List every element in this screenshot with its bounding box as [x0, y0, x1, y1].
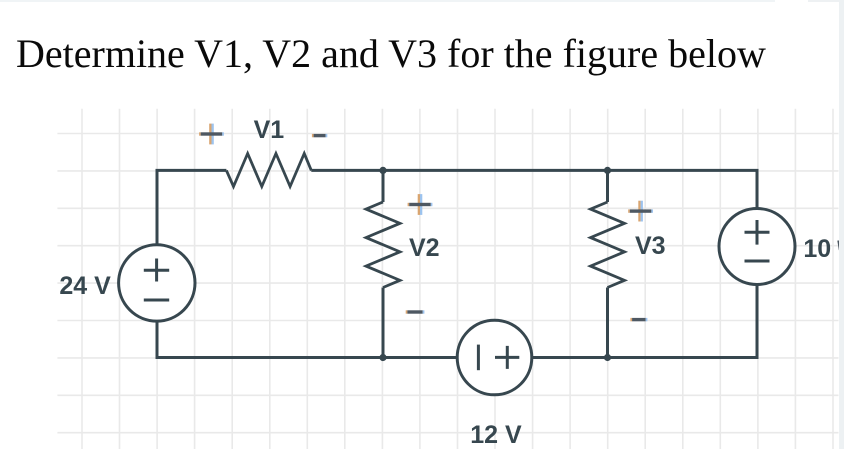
label 10 (V clipped): [803, 237, 831, 262]
plus inside 10V: [745, 220, 770, 245]
label V1: [254, 118, 285, 143]
voltage source 10V circle: [719, 209, 795, 285]
minus inside 10V: [745, 260, 770, 263]
wire: V3 branch bottom stub: [606, 288, 609, 358]
title: [16, 34, 766, 74]
polarity minus for V2: [406, 310, 425, 313]
minus bar inside 12V: [477, 345, 480, 371]
label 12 V: [470, 423, 521, 448]
plus inside 24V: [144, 259, 169, 282]
polarity minus for V1: [312, 134, 327, 137]
resistor R2 (V2): [366, 202, 400, 288]
polarity plus for V1: [199, 124, 224, 145]
wire: V3 branch top stub: [606, 170, 609, 202]
junction node bottom of V2: [379, 354, 386, 361]
resistor R3 (V3): [591, 202, 625, 288]
wire: V2 branch bottom stub: [382, 288, 385, 358]
voltage source 24V circle: [119, 245, 195, 321]
wire: bottom-left from 12V to corner and up to 24V source: [157, 321, 457, 357]
wire: top from R1 to top-right corner, down to 10V source: [311, 170, 757, 208]
plus inside 12V: [495, 346, 519, 369]
wire: top-left from 24V source up and right to R1: [157, 170, 226, 244]
voltage source 12V circle: [457, 320, 532, 395]
resistor R1 (V1): [226, 154, 311, 187]
sliver of clipped V of "10 V" label: [839, 241, 841, 251]
right window edge strip: [839, 0, 844, 449]
top window edge bar: [0, 0, 775, 2]
junction node top-left of V2: [379, 167, 386, 174]
label 24 V: [59, 274, 110, 299]
minus inside 24V: [144, 299, 169, 302]
label V2: [409, 236, 440, 261]
junction node bottom of V3: [604, 354, 611, 361]
label V3: [635, 234, 666, 259]
polarity minus for V3: [630, 318, 647, 321]
polarity plus for V3: [628, 201, 653, 222]
wire: V2 branch top stub: [382, 170, 385, 202]
polarity plus for V2: [408, 194, 433, 215]
wire: right side below 10V down to bottom-right corner: [532, 285, 757, 358]
grid vertical lines: [82, 109, 833, 449]
junction node top of V3: [604, 167, 611, 174]
grid horizontal lines: [57, 134, 838, 433]
